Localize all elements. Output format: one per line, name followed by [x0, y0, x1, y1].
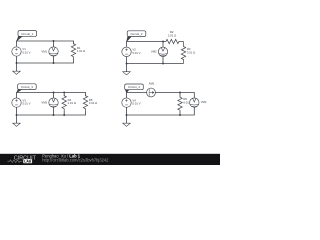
svg-text:3.01 Ω: 3.01 Ω — [89, 101, 97, 105]
svg-text:2.01 Ω: 2.01 Ω — [68, 101, 76, 105]
ground — [13, 115, 21, 126]
ground — [13, 63, 21, 74]
svg-text:VM2: VM2 — [151, 50, 157, 54]
wire c2 bottom rail — [127, 57, 184, 64]
svg-text:VM4: VM4 — [201, 100, 207, 104]
junction — [179, 114, 181, 116]
CircuitLab logo text CIRCUIT — [14, 155, 37, 161]
voltage source V3 — [12, 98, 31, 107]
wire c3 bottom rail — [17, 108, 86, 116]
svg-text:Circuit_4: Circuit_4 — [128, 85, 140, 89]
svg-text:5.01 V: 5.01 V — [22, 102, 30, 106]
svg-text:LAB: LAB — [24, 160, 32, 164]
svg-text:1.01 Ω: 1.01 Ω — [77, 49, 85, 53]
ground — [123, 115, 131, 126]
voltmeter VM3 — [41, 98, 58, 107]
wire c2 VM2 leads — [162, 42, 164, 64]
junction — [162, 63, 164, 65]
wire c3 VM3 leads — [53, 93, 55, 116]
svg-text:Circuit_2: Circuit_2 — [130, 32, 142, 36]
svg-text:5.01 V: 5.01 V — [132, 51, 140, 55]
watermark bar — [0, 154, 220, 165]
svg-text:5.01 V: 5.01 V — [22, 51, 30, 55]
svg-text:2.01 Ω: 2.01 Ω — [168, 34, 176, 38]
svg-text:Circuit_3: Circuit_3 — [21, 85, 33, 89]
CircuitLab logo LAB badge — [23, 159, 32, 163]
resistor R5 — [83, 96, 97, 111]
wire c4 top rail left — [127, 93, 147, 99]
wire c4 R6 leads — [179, 93, 181, 116]
svg-text:VM1: VM1 — [41, 49, 47, 53]
ammeter AM1 — [147, 82, 156, 97]
wire c2 top rail — [127, 42, 164, 47]
wire c1 bottom rail — [17, 56, 74, 63]
voltage source V2 — [122, 47, 141, 56]
junction — [53, 40, 55, 42]
resistor R4 — [62, 96, 76, 111]
svg-text:5.01 V: 5.01 V — [132, 102, 140, 106]
junction — [16, 62, 18, 64]
net label Circuit_4 — [125, 84, 144, 93]
net label Circuit_2 — [127, 31, 146, 42]
svg-text:AM1: AM1 — [149, 82, 155, 86]
voltmeter VM1 — [41, 47, 58, 56]
resistor R1 — [71, 44, 85, 59]
wire c4 top rail right — [155, 93, 194, 99]
voltage source V1 — [12, 47, 31, 56]
junction — [16, 114, 18, 116]
net label Circuit_1 — [17, 31, 37, 42]
wire c1 top rail — [17, 41, 74, 46]
voltage source V4 — [122, 98, 141, 107]
ground — [123, 64, 131, 75]
CircuitLab logo resistor zigzag — [8, 160, 23, 163]
wire c4 bottom rail — [127, 107, 195, 115]
resistor R2 — [163, 30, 184, 44]
voltmeter VM4 — [190, 98, 207, 107]
wire c3 top rail — [17, 93, 86, 99]
junction — [53, 62, 55, 64]
junction — [53, 92, 55, 94]
watermark url text — [42, 158, 109, 163]
junction — [63, 114, 65, 116]
resistor R3 — [181, 42, 195, 64]
resistor R6 — [178, 97, 192, 111]
svg-text:VM3: VM3 — [41, 101, 47, 105]
junction — [179, 92, 181, 94]
voltmeter VM2 — [151, 47, 168, 56]
junction — [126, 63, 128, 65]
junction — [53, 114, 55, 116]
net label Circuit_3 — [17, 84, 37, 93]
wire c3 R4 leads — [63, 93, 65, 116]
watermark title text — [42, 153, 81, 158]
svg-text:3.01 Ω: 3.01 Ω — [187, 50, 195, 54]
junction — [162, 41, 164, 43]
junction — [126, 114, 128, 116]
junction — [63, 92, 65, 94]
svg-text:http://circuitlab.com/c2s3bvh7: http://circuitlab.com/c2s3bvh7bj3242 — [42, 158, 109, 163]
svg-text:Circuit_1: Circuit_1 — [21, 32, 33, 36]
wire c1 VM1 leads — [53, 41, 55, 63]
